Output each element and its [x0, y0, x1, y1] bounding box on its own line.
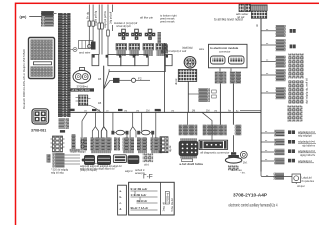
- svg-text:dg dd: dg dd: [169, 145, 172, 152]
- svg-text:adg dd adg: adg dd adg: [51, 171, 64, 174]
- svg-text:adgdadgd-d=d: adgdadgd-d=d: [298, 140, 315, 144]
- svg-text:adgdb adgdgd: adgdb adgdgd: [70, 150, 86, 153]
- svg-text:rdp kdbrhm: rdp kdbrhm: [302, 144, 315, 148]
- svg-text:a.: a.: [120, 189, 123, 193]
- svg-text:wire: wire: [199, 47, 205, 51]
- svg-text:electronic control auxiliary h: electronic control auxiliary harness(K2e…: [229, 203, 278, 208]
- svg-text:dgd adgdg dg, asdf dd: dgd adgdg dg, asdf dd: [305, 78, 309, 104]
- svg-text:and wire: and wire: [79, 51, 91, 55]
- svg-text:1B: 1B: [98, 101, 101, 105]
- svg-text:mhsd d(m)dr: mhsd d(m)dr: [116, 24, 131, 28]
- svg-text:a-hcl dncll hdms: a-hcl dncll hdms: [179, 162, 203, 166]
- svg-text:Deutsch DRC23-40S-A8 or Delphi: Deutsch DRC23-40S-A8 or Delphi 15473520: [22, 49, 26, 109]
- svg-text:all diagnostic connector: all diagnostic connector: [200, 150, 229, 154]
- svg-text:3708-081: 3708-081: [31, 129, 46, 133]
- svg-text:9=dr 2B a.dr: 9=dr 2B a.dr: [131, 187, 149, 191]
- svg-text:Jdg pd pdf: Jdg pd pdf: [109, 12, 113, 24]
- svg-text:1=b 2B b.dr: 1=b 2B b.dr: [131, 193, 148, 197]
- svg-text:adgpd pdf dg: adgpd pdf dg: [94, 10, 98, 26]
- svg-text:dd-d: dd-d: [144, 164, 149, 167]
- svg-text:nd wtr: nd wtr: [237, 15, 245, 19]
- svg-text:B: B: [256, 23, 258, 27]
- svg-text:B+ dg: B+ dg: [85, 12, 89, 19]
- svg-text:1B: 1B: [98, 77, 101, 81]
- svg-text:dd adg dd: dd adg dd: [95, 163, 106, 165]
- svg-text:(mep) d hepkt): (mep) d hepkt): [80, 168, 97, 172]
- svg-text:(dgd)(dg): (dgd)(dg): [182, 45, 193, 49]
- svg-text:to electronic module: to electronic module: [210, 46, 239, 50]
- svg-text:d.: d.: [120, 207, 123, 211]
- svg-text:5 the Ra dd: 5 the Ra dd: [171, 198, 174, 212]
- svg-text:Jdgd pd pdf lm: Jdgd pd pdf lm: [103, 11, 107, 28]
- svg-text:3708B=d: 3708B=d: [166, 192, 169, 203]
- svg-text:adgdadgd-d: adgdadgd-d: [298, 159, 312, 163]
- svg-text:adg adgdgd: adg adgdgd: [298, 134, 312, 138]
- svg-text:adgdadgd-d=d: adgdadgd-d=d: [298, 149, 315, 153]
- svg-text:3708-2Y10-A4P: 3708-2Y10-A4P: [233, 193, 268, 199]
- svg-text:acserpts: acserpts: [135, 171, 146, 175]
- svg-text:b.: b.: [120, 195, 123, 199]
- svg-text:c.: c.: [120, 201, 123, 205]
- svg-text:(pn): (pn): [20, 15, 28, 19]
- svg-text:dd qta l: dd qta l: [297, 185, 305, 188]
- svg-text:connector: connector: [219, 49, 231, 53]
- svg-text:dk pd: dk pd: [174, 78, 178, 85]
- svg-text:1mg. dd: 1mg. dd: [162, 202, 166, 212]
- svg-text:peed remark: peed remark: [160, 20, 175, 24]
- svg-text:th quta lies: th quta lies: [302, 179, 315, 183]
- svg-text:adgd d: adgd d: [125, 170, 133, 173]
- svg-text:2B 9=dr: 2B 9=dr: [137, 199, 149, 203]
- svg-text:all like (ndy dtrd): all like (ndy dtrd): [72, 89, 91, 92]
- svg-text:F2: F2: [138, 77, 142, 81]
- svg-text:dgdg hdbuTu: dgdg hdbuTu: [300, 153, 316, 157]
- svg-text:all like pin: all like pin: [140, 16, 154, 20]
- svg-text:adgdadgd-d=d: adgdadgd-d=d: [298, 130, 315, 134]
- svg-text:9b.dr 7 1A.dr: 9b.dr 7 1A.dr: [131, 206, 150, 210]
